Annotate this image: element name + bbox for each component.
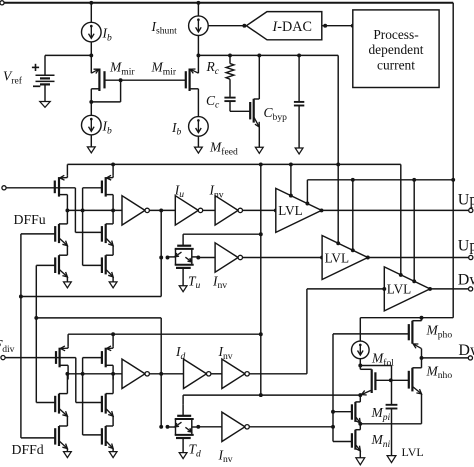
transistor M_pho (411, 321, 413, 344)
wire to LVL3 (413, 180, 415, 281)
transmission gate T_u (177, 245, 191, 247)
level shifter LVL1 (276, 188, 322, 232)
wire (66, 246, 68, 256)
svg-text:current: current (377, 57, 415, 72)
transistor follower (371, 369, 373, 393)
wire Up output (322, 209, 469, 211)
wire DFFd out to inverter (67, 373, 122, 375)
node M_pho drain / border wire junction (420, 316, 424, 320)
svg-text:LVL: LVL (402, 445, 424, 459)
wire (243, 209, 276, 211)
wire to LVL1 (290, 164, 292, 195)
transistor DFFu NMOS2a (105, 224, 107, 243)
transistor M_nho (411, 368, 413, 392)
wire (112, 334, 114, 346)
wire (112, 246, 114, 256)
cross wire A (21, 296, 161, 298)
inverter (DFFd output) (122, 359, 145, 388)
top supply rail (2, 2, 453, 4)
minus sign (33, 85, 40, 87)
input terminal F_div (1, 356, 5, 360)
wire (76, 402, 102, 404)
input wire F_div (5, 357, 76, 359)
wire to LVL2 (337, 164, 339, 243)
wire (149, 373, 183, 375)
wire (83, 434, 102, 436)
current source I_b (M_feed branch) (189, 117, 209, 137)
wire (90, 3, 92, 23)
svg-text:LVL: LVL (325, 250, 349, 265)
svg-text:I-DAC: I-DAC (272, 19, 312, 35)
gate wire (333, 411, 352, 413)
svg-text:LVL: LVL (387, 282, 411, 297)
gate wire (83, 187, 102, 189)
node LVL1 output (320, 208, 324, 212)
wire rail (198, 54, 338, 56)
T_d control wire (183, 394, 360, 396)
transistor DFFu NMOS1a (58, 224, 60, 243)
svg-text:div: div (2, 344, 14, 355)
node (358, 422, 362, 426)
transistor DFFu PMOS1 (58, 177, 60, 197)
wire Dw2 (422, 357, 469, 359)
level shifter LVL3 (384, 267, 430, 311)
node (331, 425, 335, 429)
svg-text:Dw: Dw (458, 342, 474, 359)
horizontal rail (u-section supply) (67, 163, 400, 165)
node mid rail (196, 53, 200, 57)
node T_d left (166, 425, 170, 429)
Process-dependent current box (353, 10, 439, 88)
node follower drain (358, 364, 362, 368)
node DFFu out (111, 208, 115, 212)
wire (66, 372, 68, 393)
input wire (6, 187, 75, 189)
ground (387, 456, 396, 463)
svg-text:Up: Up (458, 237, 474, 254)
second supply line to LVLs (307, 179, 453, 181)
cross wire B (36, 317, 161, 319)
gate wire (21, 233, 55, 235)
node top rail / Ib1 (89, 1, 93, 5)
battery V_ref (36, 74, 55, 76)
wire (74, 188, 76, 233)
ground (109, 282, 117, 288)
svg-text:DFFu: DFFu (14, 212, 46, 227)
node gate loop (119, 78, 123, 82)
wire Dw output (430, 288, 469, 290)
node Mmir1 source (89, 100, 93, 104)
wire (211, 373, 222, 375)
wire (112, 209, 114, 224)
inverter I_u (175, 196, 198, 225)
ground (87, 147, 95, 153)
node follower input (358, 393, 362, 397)
wire to I-DAC (208, 25, 246, 27)
transistor M_ni (354, 430, 356, 450)
feedback wire (82, 188, 84, 266)
node LVL2 input (320, 256, 324, 260)
node (159, 208, 163, 212)
inverter I_nv (u low chain) (215, 243, 238, 272)
wire (322, 25, 353, 27)
capacitor (follower) (391, 380, 393, 405)
wire (112, 372, 114, 393)
wire (66, 449, 68, 452)
ground (255, 147, 263, 153)
wire down (337, 55, 339, 164)
gate wire (21, 437, 55, 439)
DFFd supply wire (68, 333, 261, 335)
wire (249, 426, 333, 428)
vertical clock wire upper (to T_u and wire A) (160, 210, 162, 296)
wire (112, 449, 114, 452)
wire (391, 366, 393, 381)
M_pho gate wire (333, 333, 409, 335)
ground (64, 282, 72, 288)
transistor M_pi (354, 402, 356, 422)
wire to LVL3 riser (249, 373, 307, 375)
level shifter LVL2 (322, 236, 368, 280)
node T_u right (196, 256, 200, 260)
wire (197, 136, 199, 147)
wire (44, 84, 46, 101)
wire to LVL2 (352, 180, 354, 251)
wire (112, 277, 114, 282)
node (81, 208, 85, 212)
transistor DFFu NMOS1b (58, 255, 60, 274)
output terminal Dw (469, 287, 473, 291)
wire to LVL2 (243, 257, 323, 259)
capacitor C_c (224, 97, 235, 99)
wire (198, 257, 215, 259)
inverter I_d (184, 359, 207, 388)
transistor DFFd NMOS2a (105, 394, 107, 414)
node Qbar-u (65, 208, 69, 212)
current source I_b (top left) (82, 22, 102, 42)
gate wire (83, 357, 102, 359)
long cross-couple wire down (35, 265, 37, 402)
clock distribution wire (260, 164, 262, 395)
transistor DFFd PMOS1 (58, 348, 60, 368)
input terminal top-left (0, 1, 4, 5)
ground (295, 148, 303, 154)
plus sign (32, 66, 39, 68)
gate wire (376, 379, 409, 381)
inverter I_nv (215, 196, 238, 225)
output terminal Dw2 (468, 356, 472, 360)
transistor DFFu PMOS2 (105, 177, 107, 197)
node Dw low (420, 356, 424, 360)
transmission gate T_d (177, 415, 191, 417)
node Qbar-d (65, 372, 69, 376)
node LVL2 output (366, 256, 370, 260)
wire (66, 164, 68, 175)
gate wire (333, 441, 352, 443)
gate wire (36, 402, 55, 404)
wire (44, 55, 46, 75)
wire (90, 135, 92, 147)
current source M_fol (359, 318, 361, 342)
wire (149, 209, 175, 211)
wire (66, 209, 68, 224)
LVL3 input wire from below (307, 288, 384, 290)
ground (356, 458, 365, 465)
wire (120, 80, 122, 102)
source lead (190, 88, 199, 90)
wire (203, 209, 215, 211)
source lead (91, 88, 99, 90)
svg-text:dependent: dependent (368, 42, 423, 57)
transistor M_mir (left, diode-connected) (90, 55, 92, 73)
wire (112, 416, 114, 426)
capacitor (bypass) (298, 55, 300, 102)
inverter I_nv (d chain) (222, 359, 245, 388)
wire (90, 42, 92, 56)
node DFFd out (111, 372, 115, 376)
long cross-couple wire down (20, 234, 22, 438)
node follower out (389, 378, 393, 382)
ground (64, 452, 72, 458)
wire gate-gate (121, 79, 186, 81)
wire to C_byp gate (230, 110, 250, 112)
right border wire down to follower stage (452, 3, 454, 318)
T_u control wire (183, 233, 261, 235)
transistor DFFd PMOS2 (105, 348, 107, 368)
wire (66, 416, 68, 426)
wire to NMOS2b gate (83, 264, 102, 266)
wire (198, 426, 222, 428)
ground (109, 452, 117, 458)
node rail/I_shunt (196, 1, 200, 5)
transistor DFFd NMOS2b (105, 426, 107, 446)
wire (112, 164, 114, 175)
node LVL3 output (428, 287, 432, 291)
input terminal DFFu (2, 186, 6, 190)
wire to LVL1 (306, 180, 308, 204)
svg-text:DFFd: DFFd (12, 442, 44, 457)
node Vref/Mmir1 drain (89, 53, 93, 57)
MOS capacitor C_byp (258, 55, 260, 99)
gate wire (36, 264, 55, 266)
node (81, 372, 85, 376)
output terminal Up2 (469, 255, 473, 259)
node T_u left (166, 256, 170, 260)
vertical clock wire lower (wire B to T_d) (160, 318, 162, 427)
transistor M_mir (right) (185, 71, 187, 88)
wire (360, 365, 391, 367)
svg-text:LVL: LVL (278, 203, 302, 218)
node LVL1 input (274, 208, 278, 212)
svg-text:Up: Up (458, 191, 474, 208)
wire (75, 358, 77, 403)
feedback wire (82, 358, 84, 435)
wire to LVL3 (400, 164, 402, 275)
wire to Vref (45, 54, 91, 56)
ground / M_feed (195, 147, 203, 153)
transistor DFFd NMOS1a (58, 394, 60, 414)
ground (40, 102, 50, 108)
node T_d right (196, 425, 200, 429)
resistor R_c (229, 55, 231, 63)
node LVL3 input (382, 287, 386, 291)
transistor DFFu NMOS2b (105, 255, 107, 274)
svg-text:Dw: Dw (458, 272, 474, 289)
wire Up2 output (368, 257, 469, 259)
gate wire (105, 79, 121, 81)
I-DAC block (246, 12, 321, 40)
current source I_shunt (189, 16, 209, 36)
inverter I_nv (d low chain) (222, 412, 245, 441)
wire (197, 36, 199, 56)
wire (197, 3, 199, 16)
wire DFFu out to inverter (67, 209, 122, 211)
gate bias vertical wire (332, 334, 334, 442)
transistor DFFd NMOS1b (58, 426, 60, 446)
current source I_b (below M_mir) (82, 115, 102, 135)
inverter (DFFu output) (122, 196, 145, 225)
wire (66, 277, 68, 282)
wire to NMOS gate (75, 231, 102, 233)
svg-text:Process-: Process- (373, 27, 418, 42)
output terminal Up (469, 208, 473, 212)
